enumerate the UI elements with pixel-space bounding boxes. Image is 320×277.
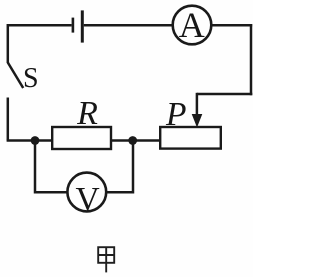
wire top-mid horizontal [84,24,172,27]
caption 甲 drawn as strokes [98,247,114,272]
svg-text:P: P [165,96,186,133]
wire right vertical [250,24,253,95]
svg-text:V: V [75,181,99,218]
wire top-right horizontal [212,24,252,27]
rheostat wiper arrowhead [192,114,203,128]
svg-text:S: S [23,63,39,94]
wire left vertical upper [7,24,10,63]
battery long plate [81,10,84,42]
wire wiper stem [196,93,199,117]
svg-text:R: R [76,95,98,132]
switch S blade [8,63,23,89]
wire bottom-left vertical [7,98,10,141]
junction dot right [128,136,137,145]
battery short plate [72,18,75,33]
wire bottom rail mid [111,139,160,142]
wire bottom rail left [7,139,52,142]
wire jog horizontal to wiper [197,93,252,96]
svg-text:A: A [179,5,205,45]
rheostat P body [160,127,221,149]
wire top-left horizontal [8,24,72,27]
voltmeter V circle [67,173,106,212]
wire voltmeter loop right [107,141,133,193]
wire voltmeter loop left [35,141,67,193]
ammeter A circle [173,6,212,45]
junction dot left [31,136,40,145]
resistor R body [52,127,111,149]
